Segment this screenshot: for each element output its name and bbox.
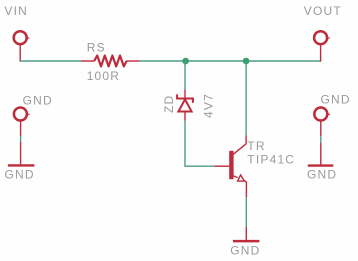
zener ZD bottom lead	[184, 112, 186, 121]
svg-text:GND: GND	[23, 93, 53, 107]
pin stub VIN	[19, 45, 21, 61]
transistor TR base lead	[215, 165, 230, 167]
junction node dot 2	[243, 58, 250, 65]
svg-text:VOUT: VOUT	[304, 4, 342, 18]
svg-text:GND: GND	[5, 167, 35, 181]
svg-text:100R: 100R	[87, 69, 121, 83]
pin tick VOUT	[327, 37, 330, 39]
junction node dot 1	[182, 58, 189, 65]
pin tick GND right	[327, 113, 330, 115]
svg-text:GND: GND	[321, 92, 351, 106]
zener ZD cathode bar with wings	[177, 94, 193, 103]
ground bottom bar	[233, 240, 260, 243]
wire junction1 down to zener	[184, 61, 186, 90]
ground bottom pin stub	[245, 227, 247, 240]
resistor RS zigzag	[94, 56, 126, 67]
wire emitter to ground	[245, 197, 247, 227]
resistor R S left lead	[81, 60, 94, 62]
wire GND right	[320, 136, 322, 143]
transistor TR emitter end segment	[244, 180, 246, 183]
transistor TR collector diagonal	[233, 144, 246, 154]
svg-text:TIP41C: TIP41C	[247, 152, 295, 166]
wire junction2 down to collector	[245, 61, 247, 136]
ground right pin stub	[320, 143, 322, 165]
terminal pin GND left circle	[14, 108, 27, 121]
ground right bar	[308, 164, 334, 166]
transistor TR emitter pin	[245, 182, 247, 197]
resistor RS right lead	[126, 60, 139, 62]
pin stub GND right upper	[320, 122, 322, 137]
pin stub GND left upper	[20, 122, 22, 137]
wire VIN to resistor	[20, 60, 81, 62]
svg-text:RS: RS	[87, 40, 106, 54]
ground left bar	[8, 164, 35, 166]
svg-text:GND: GND	[230, 244, 260, 258]
svg-text:GND: GND	[307, 167, 337, 181]
wire GND left	[20, 136, 22, 142]
transistor TR emitter arrow	[238, 175, 245, 181]
pin tick GND left	[27, 113, 30, 115]
wire resistor to VOUT	[140, 60, 321, 62]
svg-text:VIN: VIN	[4, 4, 28, 18]
zener ZD triangle	[178, 99, 191, 111]
pin stub VOUT	[320, 45, 322, 61]
zener ZD top lead	[184, 90, 186, 99]
terminal pin GND right circle	[314, 108, 327, 121]
pin tick VIN	[27, 37, 30, 39]
transistor TR base bar	[229, 151, 233, 179]
wire zener to base corner	[185, 121, 215, 167]
svg-text:4V7: 4V7	[201, 93, 215, 118]
terminal pin VOUT circle	[314, 31, 327, 44]
svg-text:TR: TR	[247, 139, 265, 153]
svg-text:ZD: ZD	[162, 95, 176, 113]
transistor TR emitter nub	[234, 176, 238, 178]
transistor TR collector pin	[245, 136, 247, 144]
ground left pin stub	[20, 142, 22, 164]
terminal pin VIN circle	[14, 31, 27, 44]
